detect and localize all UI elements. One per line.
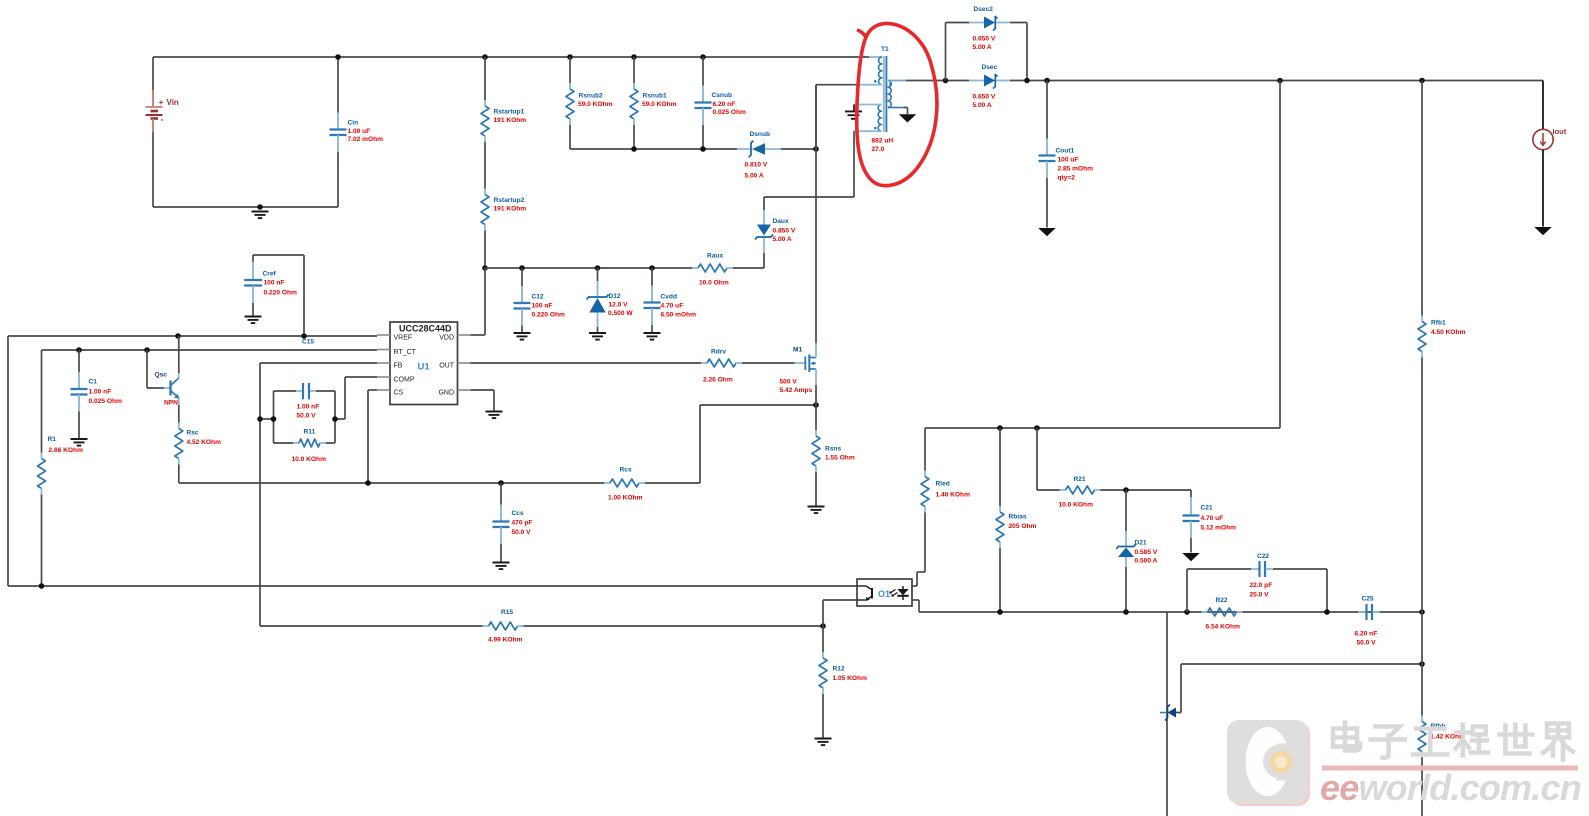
svg-text:Rstartup2: Rstartup2	[494, 197, 525, 204]
svg-text:RT_CT: RT_CT	[394, 349, 417, 356]
svg-text:4.52 KOhm: 4.52 KOhm	[187, 439, 222, 446]
svg-text:C12: C12	[532, 294, 544, 301]
svg-text:50.0 V: 50.0 V	[1357, 640, 1377, 647]
svg-text:5.42 Amps: 5.42 Amps	[780, 387, 813, 394]
svg-text:Cref: Cref	[263, 271, 277, 278]
svg-text:Rsc: Rsc	[187, 430, 199, 437]
svg-text:U1: U1	[418, 362, 431, 373]
svg-text:Rcs: Rcs	[620, 467, 632, 474]
svg-text:1.00 nF: 1.00 nF	[297, 404, 320, 411]
svg-text:6.50 mOhm: 6.50 mOhm	[661, 312, 697, 319]
svg-text:Rfb1: Rfb1	[1431, 320, 1446, 327]
svg-text:eeworld.com.cn: eeworld.com.cn	[1320, 767, 1581, 808]
svg-text:50.0 V: 50.0 V	[297, 413, 317, 420]
svg-text:Rled: Rled	[936, 481, 950, 488]
svg-text:Dsec2: Dsec2	[974, 6, 994, 13]
svg-text:100 nF: 100 nF	[532, 303, 553, 310]
svg-text:1.00 nF: 1.00 nF	[89, 389, 112, 396]
svg-text:27.0: 27.0	[872, 146, 885, 153]
svg-text:Ccs: Ccs	[512, 510, 524, 517]
svg-text:FB: FB	[394, 362, 403, 369]
svg-text:50.0 V: 50.0 V	[512, 529, 532, 536]
svg-text:C25: C25	[1362, 596, 1374, 603]
svg-text:D21: D21	[1135, 540, 1147, 547]
svg-text:O1: O1	[878, 589, 890, 599]
svg-text:6.20 nF: 6.20 nF	[713, 101, 736, 108]
svg-text:COMP: COMP	[394, 376, 415, 383]
svg-text:Csnub: Csnub	[712, 92, 733, 99]
svg-text:R22: R22	[1216, 597, 1228, 604]
svg-text:4.99 KOhm: 4.99 KOhm	[488, 637, 523, 644]
svg-text:1.00 KOhm: 1.00 KOhm	[608, 495, 643, 502]
svg-text:0.585 V: 0.585 V	[1135, 549, 1158, 556]
svg-text:4.70 uF: 4.70 uF	[1201, 515, 1224, 522]
svg-text:VREF: VREF	[394, 334, 413, 341]
svg-text:10.0 KOhm: 10.0 KOhm	[292, 456, 327, 463]
svg-text:0.650 V: 0.650 V	[973, 94, 996, 101]
svg-text:100 nF: 100 nF	[264, 280, 285, 287]
svg-text:2.85 mOhm: 2.85 mOhm	[1058, 166, 1094, 173]
svg-text:59.0 KOhm: 59.0 KOhm	[642, 101, 677, 108]
svg-text:R1: R1	[48, 436, 57, 443]
svg-text:0.220 Ohm: 0.220 Ohm	[532, 312, 565, 319]
svg-text:D12: D12	[609, 293, 621, 300]
svg-text:OUT: OUT	[439, 362, 455, 369]
svg-text:5.00 A: 5.00 A	[973, 102, 992, 109]
svg-text:22.0 pF: 22.0 pF	[1250, 582, 1273, 589]
svg-text:C15: C15	[302, 339, 314, 346]
svg-text:Cout1: Cout1	[1056, 148, 1075, 155]
svg-text:4.50 KOhm: 4.50 KOhm	[1431, 329, 1466, 336]
svg-text:Cin: Cin	[348, 120, 359, 127]
svg-text:R21: R21	[1074, 476, 1086, 483]
svg-text:Rdrv: Rdrv	[711, 349, 726, 356]
svg-text:C22: C22	[1257, 553, 1269, 560]
svg-text:6.20 nF: 6.20 nF	[1355, 631, 1378, 638]
svg-text:1.55 Ohm: 1.55 Ohm	[825, 455, 855, 462]
svg-text:1.40 KOhm: 1.40 KOhm	[936, 492, 971, 499]
svg-text:1.05 KOhm: 1.05 KOhm	[833, 675, 868, 682]
svg-text:R12: R12	[833, 666, 845, 673]
svg-text:892 uH: 892 uH	[872, 138, 894, 145]
svg-text:Cvdd: Cvdd	[661, 294, 677, 301]
svg-text:M1: M1	[793, 347, 802, 354]
svg-text:Dsec: Dsec	[982, 64, 998, 71]
svg-text:Rstartup1: Rstartup1	[494, 109, 525, 116]
svg-text:2.26 Ohm: 2.26 Ohm	[703, 377, 733, 384]
svg-text:R11: R11	[304, 429, 316, 436]
svg-text:205 Ohm: 205 Ohm	[1009, 523, 1037, 530]
svg-text:10.0 Ohm: 10.0 Ohm	[699, 280, 729, 287]
svg-text:500 V: 500 V	[780, 379, 798, 386]
svg-text:0.220 Ohm: 0.220 Ohm	[264, 290, 297, 297]
svg-text:4.70 uF: 4.70 uF	[661, 303, 684, 310]
svg-text:100 uF: 100 uF	[1058, 157, 1079, 164]
svg-text:+: +	[159, 97, 164, 107]
svg-text:-: -	[161, 115, 164, 125]
svg-text:191 KOhm: 191 KOhm	[494, 206, 527, 213]
svg-text:Qsc: Qsc	[155, 372, 168, 379]
svg-text:GND: GND	[438, 389, 454, 396]
svg-text:0.850 V: 0.850 V	[773, 228, 796, 235]
svg-text:R15: R15	[501, 609, 513, 616]
svg-text:12.0 V: 12.0 V	[609, 302, 629, 309]
svg-text:2.66 KOhm: 2.66 KOhm	[49, 447, 84, 454]
svg-text:Raux: Raux	[707, 253, 723, 260]
svg-text:0.500 W: 0.500 W	[608, 310, 633, 317]
svg-text:0.500 A: 0.500 A	[1135, 558, 1158, 565]
svg-text:Rsnub2: Rsnub2	[579, 93, 604, 100]
svg-text:CS: CS	[394, 389, 404, 396]
svg-text:0.650 V: 0.650 V	[973, 36, 996, 43]
svg-text:5.12 mOhm: 5.12 mOhm	[1201, 525, 1237, 532]
svg-text:Dsnub: Dsnub	[750, 131, 771, 138]
svg-text:Iout: Iout	[1553, 127, 1567, 136]
svg-text:NPN: NPN	[164, 400, 178, 407]
svg-text:470 pF: 470 pF	[512, 520, 533, 527]
svg-text:Rsns: Rsns	[825, 446, 841, 453]
svg-text:Vin: Vin	[167, 98, 179, 107]
svg-text:C21: C21	[1201, 505, 1213, 512]
svg-text:qty=2: qty=2	[1058, 175, 1076, 182]
svg-text:Rsnub1: Rsnub1	[643, 93, 668, 100]
svg-text:0.810 V: 0.810 V	[745, 162, 768, 169]
svg-text:0.025 Ohm: 0.025 Ohm	[713, 109, 746, 116]
svg-text:5.00 A: 5.00 A	[973, 44, 992, 51]
svg-text:5.00 A: 5.00 A	[773, 236, 792, 243]
svg-text:5.00 A: 5.00 A	[745, 173, 764, 180]
svg-text:191 KOhm: 191 KOhm	[494, 117, 527, 124]
svg-text:10.0 KOhm: 10.0 KOhm	[1059, 502, 1094, 509]
svg-text:1.00 uF: 1.00 uF	[348, 128, 371, 135]
svg-text:T1: T1	[881, 46, 889, 53]
svg-text:UCC28C44D: UCC28C44D	[399, 324, 452, 334]
svg-text:C1: C1	[89, 379, 98, 386]
svg-text:25.0 V: 25.0 V	[1250, 592, 1270, 599]
svg-text:Daux: Daux	[773, 218, 789, 225]
svg-text:59.0 KOhm: 59.0 KOhm	[578, 101, 613, 108]
svg-text:0.025 Ohm: 0.025 Ohm	[89, 398, 122, 405]
svg-text:6.54 KOhm: 6.54 KOhm	[1206, 624, 1241, 631]
svg-text:Rbias: Rbias	[1009, 514, 1027, 521]
svg-text:7.02 mOhm: 7.02 mOhm	[348, 136, 384, 143]
svg-text:VDD: VDD	[439, 334, 454, 341]
